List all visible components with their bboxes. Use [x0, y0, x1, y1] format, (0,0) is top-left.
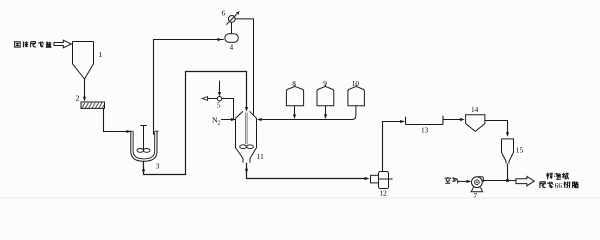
svg-text:66: 66 — [555, 181, 563, 190]
scan artifact band — [0, 197, 600, 198]
label 空气 (air) — [445, 177, 458, 183]
rotary valve 12 — [371, 175, 379, 183]
wire cyclone 14 to silo 15 — [485, 121, 508, 133]
svg-text:2: 2 — [76, 94, 80, 103]
feed arrow (solid nylon salt inlet) — [54, 40, 71, 48]
wire flasher 11 bottoms to rotary valve 12 — [247, 163, 369, 179]
vent valve 6 — [228, 16, 235, 23]
label 尼龙66树脂 (nylon 66 resin) — [540, 181, 578, 190]
wire silo 15 to conveying line — [507, 164, 509, 181]
wire hopper 10 outlet — [352, 106, 356, 120]
svg-text:10: 10 — [352, 79, 360, 88]
svg-text:14: 14 — [471, 105, 479, 114]
wire separator 4 to vent valve 6 — [231, 22, 233, 33]
wire dryer 13 to cyclone 14 — [443, 119, 463, 121]
wire hopper 9 outlet — [325, 106, 327, 115]
svg-text:12: 12 — [380, 189, 388, 198]
hopper 1 — [73, 42, 94, 80]
stirrer (flasher 11) — [246, 113, 247, 145]
svg-text:15: 15 — [516, 145, 524, 154]
silo 15 — [502, 139, 514, 164]
junction — [506, 179, 509, 182]
conveying wire to product arrow — [482, 180, 516, 182]
stirrer (reactor 3) — [140, 126, 147, 150]
nitrogen feed wire — [221, 119, 236, 121]
wire valve 5 to nitrogen line — [222, 99, 234, 120]
blower 7 — [472, 177, 483, 188]
svg-text:6: 6 — [222, 9, 226, 18]
cyclone 14 — [466, 115, 485, 132]
wire hopper 8 outlet — [294, 106, 296, 115]
valve 5 — [217, 97, 221, 101]
vent wire into valve 5 — [219, 81, 221, 95]
svg-text:2: 2 — [218, 120, 221, 126]
svg-text:5: 5 — [217, 103, 221, 110]
wire rotary valve 12 to dryer 13 — [383, 122, 404, 172]
wire vent valve 6 to flasher 11 — [235, 19, 253, 115]
svg-text:9: 9 — [323, 79, 327, 88]
product arrow (standard grade nylon 66 resin) — [516, 176, 534, 186]
additive header wire to flasher 11 — [260, 119, 353, 121]
feeder 2 (hatched belt feeder) — [81, 102, 105, 108]
svg-text:1: 1 — [99, 50, 103, 59]
dryer 13 — [406, 116, 444, 125]
label 固体尼龙盐 (solid nylon salt) — [15, 41, 52, 47]
wire hopper 1 to feeder 2 — [84, 79, 86, 98]
svg-text:8: 8 — [292, 79, 296, 88]
additive hopper 8 — [286, 85, 303, 106]
air feed wire — [458, 180, 468, 182]
additive hopper 9 — [317, 85, 334, 106]
svg-text:4: 4 — [230, 43, 234, 52]
svg-text:11: 11 — [257, 152, 264, 161]
reactor 3 (jacketed stirred autoclave) — [131, 131, 157, 161]
svg-text:3: 3 — [156, 161, 160, 170]
label 标准级 (standard grade) — [546, 173, 568, 180]
additive hopper 10 — [348, 85, 365, 106]
flasher vessel 11 — [236, 111, 257, 118]
wire reactor 3 vapor to separator 4 — [154, 40, 224, 135]
separator drum 4 — [225, 34, 239, 42]
wire reactor 3 bottoms loop to flasher 11 — [144, 72, 247, 175]
vacuum wire from valve 5 (left, to vacuum) — [208, 98, 217, 100]
wire feeder 2 to reactor 3 — [104, 108, 128, 131]
svg-text:13: 13 — [421, 126, 429, 135]
